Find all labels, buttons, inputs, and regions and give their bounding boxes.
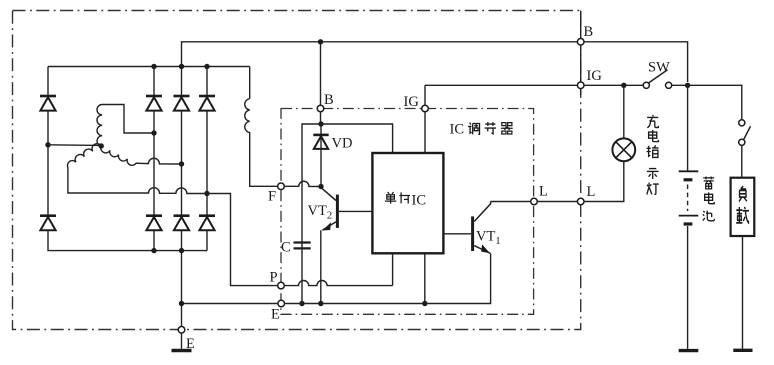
wire: B drop into regulator — [320, 42, 322, 124]
IC block (single-chip IC) — [372, 153, 443, 253]
wire: diode column 1 (x48) — [47, 67, 49, 97]
transistor VT1 — [443, 202, 490, 254]
svg-text:IC: IC — [412, 193, 427, 209]
wire: diode column 2 (x154) — [153, 67, 155, 97]
wire: E rail to diode bridge — [182, 303, 278, 305]
svg-text:L: L — [587, 184, 596, 200]
diode D2 — [146, 96, 162, 111]
svg-text:IC: IC — [450, 122, 465, 138]
wire: IG to switch SW — [584, 84, 643, 86]
label 充电指示灯 charge indicator lamp — [647, 115, 658, 128]
wire: E rail — [285, 254, 491, 304]
terminal P — [278, 282, 285, 289]
node: B inner junction — [318, 121, 323, 126]
terminal E regulator — [278, 300, 285, 307]
wire: P to IC — [284, 281, 392, 286]
terminal E alternator — [178, 327, 185, 334]
wire: IG run to alternator terminal — [425, 84, 577, 86]
node: E wire tap — [179, 301, 184, 306]
svg-text:E: E — [271, 307, 280, 323]
terminal B alternator — [577, 39, 584, 46]
stator phase 2 winding (right diagonal coil) — [101, 146, 182, 165]
wire: inner node to IC pin — [321, 124, 393, 153]
diode VD — [313, 124, 328, 187]
diode D5 lower neutral — [40, 216, 56, 231]
terminal B regulator — [317, 105, 324, 112]
label 蓄电池 battery — [703, 176, 714, 188]
diode D1 upper neutral — [40, 96, 56, 111]
wire: B+ top rail — [182, 42, 578, 67]
node: battery node — [685, 83, 690, 88]
wire: L inter-terminal — [537, 201, 577, 203]
svg-text:B: B — [584, 24, 594, 40]
node: bottom rail x154 — [151, 248, 156, 253]
svg-text:IG: IG — [587, 68, 603, 84]
text labels (latin) — [186, 24, 670, 352]
node: VT2 emitter at E rail — [318, 301, 323, 306]
node: star point — [99, 143, 104, 148]
svg-text:F: F — [268, 189, 276, 205]
battery — [679, 85, 699, 350]
terminal F — [278, 183, 285, 190]
svg-text:E: E — [186, 336, 195, 352]
wire: VT2 emitter to E rail — [320, 230, 322, 303]
node: rail junction at x154 — [151, 64, 156, 69]
wire: SW to battery node — [672, 84, 688, 86]
label 单片 of chip — [385, 192, 396, 204]
alternator dash-dot boundary — [13, 11, 581, 330]
stator phase 3 winding (left diagonal coil) — [67, 144, 207, 194]
wire: F to VD anode node — [284, 181, 321, 186]
svg-text:IG: IG — [404, 94, 420, 110]
CJK glyph drawings — [385, 115, 749, 224]
wire: B to battery top — [584, 42, 688, 82]
node: phase2 junction — [179, 161, 184, 166]
svg-text:SW: SW — [648, 60, 670, 76]
wire: VT1 collector to L — [491, 201, 531, 203]
label 负载 load — [739, 186, 747, 201]
node: rail junction at x181 — [179, 64, 184, 69]
node: lamp tap — [621, 83, 626, 88]
load branch — [688, 85, 755, 350]
terminal IG regulator — [422, 105, 429, 112]
terminal L alternator — [577, 198, 584, 205]
wire: inner node to C branch — [302, 124, 321, 304]
wire: alternator boundary solid top-right segment — [580, 11, 582, 96]
node: B rail tap to regulator — [318, 39, 323, 44]
charge indicator lamp — [584, 85, 635, 201]
wire: star point to neutral diodes — [48, 144, 101, 147]
node: phase3 junction — [204, 191, 209, 196]
wire: rectifier output rail — [48, 66, 250, 68]
svg-text:B: B — [324, 92, 334, 108]
node: neutral tap — [45, 142, 50, 147]
terminal IG alternator — [577, 82, 584, 89]
svg-text:C: C — [281, 240, 291, 256]
wire: IC bottom pin to P wire — [392, 253, 394, 285]
node: C to E wire — [299, 301, 304, 306]
transistor VT2 — [322, 188, 373, 230]
node: phase1 junction — [151, 130, 156, 135]
wire: IC bottom pin to E rail — [424, 253, 426, 303]
svg-text:P: P — [270, 270, 278, 286]
switch SW — [643, 70, 672, 89]
diode D6 — [146, 216, 162, 231]
label 调节器 of regulator title — [468, 123, 480, 135]
diode D8 — [199, 216, 215, 231]
ground at alternator E — [181, 333, 183, 349]
node: bottom rail x181 — [179, 248, 184, 253]
capacitor C — [294, 243, 311, 249]
IC regulator dash-dot boundary — [281, 109, 534, 315]
diode D4 — [199, 96, 215, 111]
svg-text:VD: VD — [332, 136, 353, 152]
wire: IG drop to IC — [424, 85, 426, 153]
wire: phase tap to terminal P — [207, 194, 278, 286]
wire: diode column 4 (x207) — [206, 67, 208, 97]
diode D7 — [174, 216, 190, 231]
stator phase 1 winding (vertical coil) — [97, 105, 154, 147]
node: rail junction at x207 — [204, 64, 209, 69]
diode D3 — [174, 96, 190, 111]
node: IC pin at E rail — [422, 301, 427, 306]
svg-text:L: L — [539, 184, 548, 200]
terminal L regulator — [531, 198, 538, 205]
wire: diode column 3 (x181) — [181, 67, 183, 97]
rotor field coil — [245, 67, 278, 187]
node: field control node — [318, 184, 323, 189]
